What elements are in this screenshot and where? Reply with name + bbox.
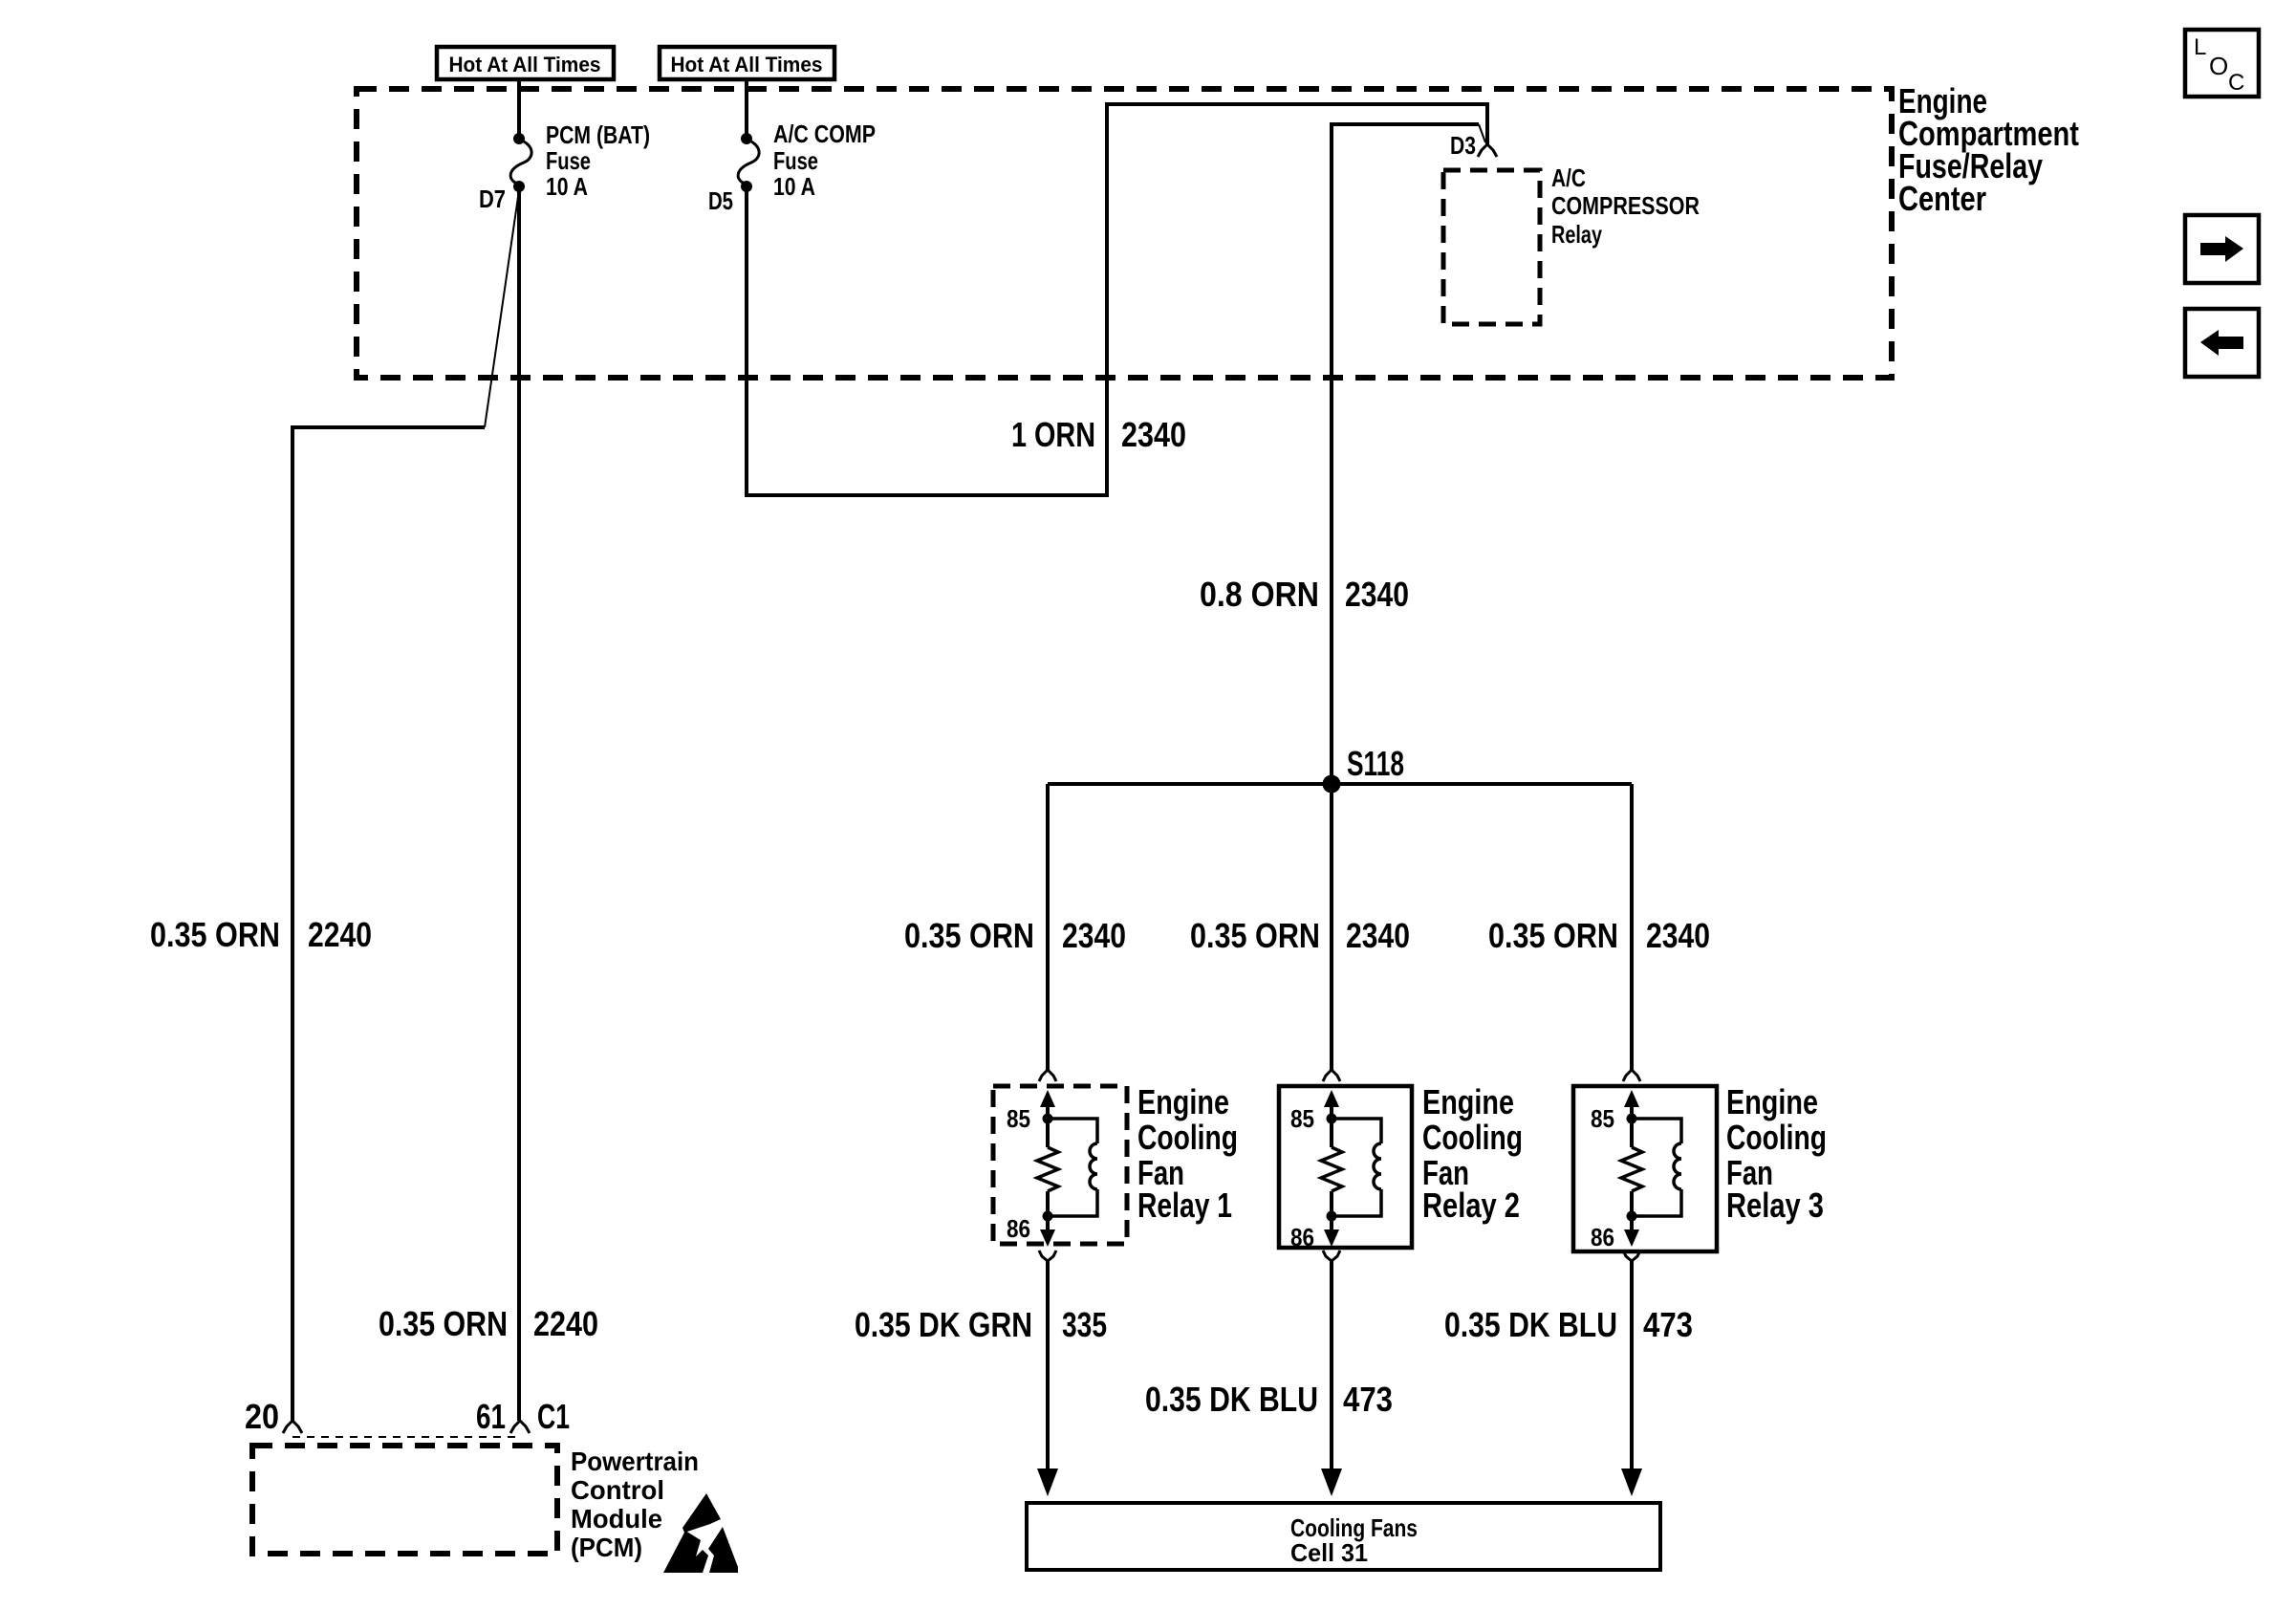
svg-text:0.8 ORN: 0.8 ORN (1200, 575, 1319, 614)
svg-text:0.35 ORN: 0.35 ORN (904, 916, 1034, 955)
svg-text:Fuse: Fuse (773, 146, 818, 175)
label: 0.8 ORN 2340 (1200, 575, 1409, 614)
wire from Hot box 2 to fuse D5 (745, 79, 748, 139)
label: A/C COMPRESSOR Relay (1551, 163, 1700, 249)
connector at PCM pin 61 (510, 1421, 530, 1433)
svg-text:Engine: Engine (1422, 1082, 1514, 1121)
relay K2 coil resistor (suppression) (1321, 1119, 1342, 1216)
svg-text:0.35 ORN: 0.35 ORN (379, 1304, 508, 1343)
svg-text:85: 85 (1007, 1104, 1030, 1133)
fuse A/C COMP 10A (738, 133, 759, 192)
cooling fans cell 31 box (1027, 1503, 1660, 1570)
arrowhead into cooling fans 2 (1321, 1469, 1342, 1496)
label: Engine Cooling Fan Relay 1 (1137, 1082, 1238, 1225)
connector at PCM pin 20 (283, 1421, 302, 1433)
svg-text:473: 473 (1343, 1380, 1393, 1419)
svg-text:86: 86 (1007, 1214, 1030, 1243)
svg-text:Control: Control (571, 1475, 664, 1505)
relay K2 pin 86 exit arrow (1324, 1216, 1339, 1247)
svg-text:86: 86 (1591, 1223, 1614, 1251)
arrowhead into cooling fans 1 (1037, 1469, 1058, 1496)
label: Powertrain Control Module (PCM) (571, 1447, 699, 1562)
wire D7 to PCM pin 61 (517, 186, 521, 1421)
svg-text:2340: 2340 (1346, 916, 1410, 955)
fuse PCM (BAT) 10A (510, 133, 531, 192)
wire slanted from D7 (485, 190, 519, 427)
svg-text:473: 473 (1643, 1305, 1693, 1344)
relay K2 pin 85 entry arrow (1324, 1090, 1339, 1119)
svg-text:S118: S118 (1347, 744, 1404, 783)
label: 0.35 DK BLU 473 (right) (1444, 1305, 1693, 1344)
svg-text:L: L (2194, 34, 2206, 60)
wire branch to relay 1 (1046, 784, 1050, 1070)
svg-text:20: 20 (245, 1397, 279, 1436)
svg-text:Relay 2: Relay 2 (1422, 1186, 1520, 1225)
svg-text:0.35 ORN: 0.35 ORN (150, 915, 280, 954)
wire 1 ORN from D5 to D3 (747, 104, 1487, 495)
connector C1 dashed link (292, 1436, 520, 1438)
svg-text:D7: D7 (479, 185, 506, 213)
wire branch to relay 2 (1330, 784, 1333, 1070)
splice node S118 (1323, 744, 1405, 794)
svg-text:2340: 2340 (1646, 916, 1710, 955)
label: 0.35 DK GRN 335 (855, 1305, 1107, 1344)
label: Engine Cooling Fan Relay 3 (1726, 1082, 1827, 1225)
connector at relay 2 input (1323, 1070, 1340, 1081)
engine compartment fuse/relay center dashed box (357, 89, 1892, 378)
powertrain control module dashed box (252, 1446, 557, 1554)
label: 1 ORN 2340 (1011, 415, 1186, 454)
svg-text:D5: D5 (708, 186, 733, 215)
relay K3 engine cooling fan relay 3 box (1573, 1086, 1717, 1251)
relay K3 coil winding (1632, 1119, 1681, 1216)
svg-text:Engine: Engine (1137, 1082, 1229, 1121)
svg-text:85: 85 (1290, 1104, 1314, 1133)
svg-text:Hot At All Times: Hot At All Times (671, 53, 823, 76)
svg-text:D3: D3 (1450, 131, 1476, 160)
relay K1 coil resistor (suppression) (1037, 1119, 1058, 1216)
ESD sensitive symbol (663, 1493, 738, 1573)
right arrow box (2185, 215, 2259, 283)
label: 0.35 ORN 2340 (left) (904, 916, 1126, 955)
svg-text:10 A: 10 A (546, 172, 588, 201)
svg-text:A/C: A/C (1551, 163, 1586, 192)
svg-text:0.35 DK BLU: 0.35 DK BLU (1444, 1305, 1617, 1344)
hot-at-all-times box 2 (660, 47, 834, 79)
connector terminal D3 (1478, 144, 1497, 157)
svg-text:Relay 3: Relay 3 (1726, 1186, 1824, 1225)
svg-text:2240: 2240 (533, 1304, 598, 1343)
relay K1 pin 86 exit arrow (1040, 1216, 1055, 1247)
hot-at-all-times box 1 (437, 47, 614, 79)
svg-text:85: 85 (1591, 1104, 1614, 1133)
label: 0.35 ORN 2340 (right) (1488, 916, 1710, 955)
svg-text:86: 86 (1290, 1223, 1314, 1251)
svg-text:2240: 2240 (308, 915, 372, 954)
svg-text:Powertrain: Powertrain (571, 1447, 699, 1476)
svg-text:10 A: 10 A (773, 172, 815, 201)
wire splice bus (1048, 782, 1632, 786)
svg-text:Cell 31: Cell 31 (1290, 1538, 1368, 1567)
svg-text:61: 61 (476, 1397, 506, 1436)
relay K2 coil winding (1332, 1119, 1381, 1216)
relay K1 engine cooling fan relay 1 dashed box (993, 1086, 1127, 1244)
svg-text:C1: C1 (537, 1397, 570, 1436)
relay K3 pin 85 entry arrow (1624, 1090, 1639, 1119)
wire from Hot box 1 to fuse D7 (517, 79, 521, 139)
wire branch to relay 3 (1630, 784, 1634, 1070)
svg-text:COMPRESSOR: COMPRESSOR (1551, 191, 1700, 220)
label: 0.35 ORN 2340 (middle) (1190, 916, 1410, 955)
connector at relay 3 output (1623, 1251, 1640, 1472)
relay K2 engine cooling fan relay 2 box (1279, 1086, 1412, 1248)
label: 0.35 ORN 2240 (wire to pin 61) (379, 1304, 598, 1343)
svg-text:Engine: Engine (1726, 1082, 1818, 1121)
svg-text:Relay 1: Relay 1 (1137, 1186, 1232, 1225)
label: 0.35 ORN 2240 (wire to pin 20) (150, 915, 372, 954)
svg-text:Hot At All Times: Hot At All Times (449, 53, 601, 76)
svg-text:2340: 2340 (1121, 415, 1186, 454)
connector at relay 3 input (1623, 1070, 1640, 1081)
svg-text:Module: Module (571, 1504, 662, 1534)
A/C compressor relay dashed box (1443, 170, 1540, 324)
LOC symbol box (2185, 30, 2259, 97)
svg-text:(PCM): (PCM) (571, 1533, 642, 1562)
svg-text:Center: Center (1898, 179, 1986, 218)
relay K3 pin 86 exit arrow (1624, 1216, 1639, 1247)
left arrow box (2185, 309, 2259, 377)
connector at relay 1 output (1039, 1251, 1056, 1472)
relay K1 coil winding (1048, 1119, 1097, 1216)
label: Engine Cooling Fan Relay 2 (1422, 1082, 1523, 1225)
label: Engine Compartment Fuse/Relay Center (1898, 81, 2079, 218)
label: 0.35 DK BLU 473 (middle) (1145, 1380, 1393, 1419)
svg-text:O: O (2209, 52, 2228, 80)
svg-text:2340: 2340 (1345, 575, 1409, 614)
connector at relay 2 output (1323, 1251, 1340, 1472)
svg-text:0.35 DK GRN: 0.35 DK GRN (855, 1305, 1032, 1344)
svg-text:0.35 DK BLU: 0.35 DK BLU (1145, 1380, 1318, 1419)
svg-text:1 ORN: 1 ORN (1011, 415, 1095, 454)
relay K2 node 85 junction (1327, 1114, 1337, 1124)
svg-text:Cooling: Cooling (1422, 1118, 1523, 1157)
svg-text:2340: 2340 (1062, 916, 1126, 955)
label: PCM (BAT) Fuse 10 A (546, 120, 650, 201)
relay K1 node 85 junction (1043, 1114, 1053, 1124)
connector at relay 1 input (1039, 1070, 1056, 1081)
svg-text:Cooling: Cooling (1137, 1118, 1238, 1157)
svg-text:Fuse: Fuse (546, 146, 591, 175)
svg-text:0.35 ORN: 0.35 ORN (1488, 916, 1618, 955)
relay K3 node 86 junction (1627, 1211, 1637, 1222)
relay K3 node 85 junction (1627, 1114, 1637, 1124)
arrowhead into cooling fans 3 (1621, 1469, 1642, 1496)
label: A/C COMP Fuse 10 A (773, 120, 876, 201)
svg-text:Relay: Relay (1551, 220, 1602, 249)
wire to PCM pin 20 (292, 427, 485, 1421)
svg-text:A/C COMP: A/C COMP (773, 120, 876, 148)
svg-text:PCM (BAT): PCM (BAT) (546, 120, 650, 149)
svg-text:0.35 ORN: 0.35 ORN (1190, 916, 1320, 955)
relay K2 node 86 junction (1327, 1211, 1337, 1222)
svg-text:Cooling: Cooling (1726, 1118, 1827, 1157)
relay K1 pin 85 entry arrow (1040, 1090, 1055, 1119)
relay K1 node 86 junction (1043, 1211, 1053, 1222)
svg-text:335: 335 (1062, 1305, 1107, 1344)
wire 0.8 ORN from S118 up to D3 (1332, 124, 1479, 784)
svg-text:C: C (2228, 70, 2244, 96)
relay K3 coil resistor (suppression) (1621, 1119, 1642, 1216)
